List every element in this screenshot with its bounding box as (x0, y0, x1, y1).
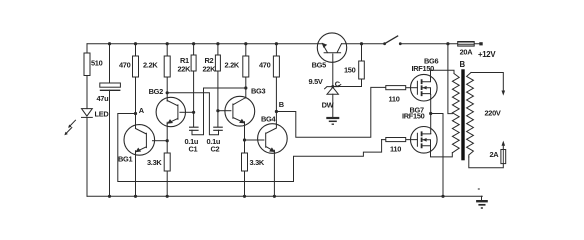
wire 470 no.1 column / node A / BG1 collector (135, 44, 137, 129)
wire upper 110 to BG6 gate (406, 87, 418, 89)
wire secondary top to output (471, 73, 503, 92)
wire bottom ground rail (87, 195, 482, 197)
fuse 2A (501, 150, 506, 164)
wire BG6 drain to primary top (431, 70, 455, 81)
MOSFET BG7 (411, 127, 438, 154)
svg-text:20A: 20A (460, 47, 474, 56)
svg-text:IRF150: IRF150 (402, 112, 425, 121)
wire left column 510/LED branch (86, 44, 88, 197)
wire lower 110 to BG7 gate (382, 139, 418, 141)
svg-text:+12V: +12V (478, 50, 496, 59)
svg-text:B: B (460, 60, 466, 69)
transistor BG5 (317, 33, 346, 62)
switch contact dots (383, 42, 386, 45)
svg-text:C1: C1 (189, 144, 198, 153)
junction dots bottom rail (108, 195, 445, 198)
ground (battery minus) (476, 200, 488, 202)
svg-text:47u: 47u (97, 94, 110, 103)
junction dots top rail (108, 42, 450, 45)
svg-text:22K: 22K (178, 65, 192, 74)
wire 150 resistor top to rail (361, 44, 363, 61)
capacitor 47u electrolytic (100, 83, 121, 87)
svg-text:BG2: BG2 (149, 87, 163, 96)
transformer primary winding (452, 74, 459, 153)
wire ground stub at rail end (481, 196, 483, 200)
capacitor C2 0.1u (213, 127, 223, 130)
svg-text:BG4: BG4 (261, 114, 276, 123)
wire 2.2K no.1 column / BG2 collector-emitter (166, 44, 168, 197)
svg-text:22K: 22K (203, 65, 217, 74)
wire +12V drop to transformer center tap (448, 44, 453, 114)
svg-text:220V: 220V (485, 109, 501, 118)
svg-text:R1: R1 (180, 56, 189, 65)
resistor R1 22K (191, 55, 196, 71)
resistor 2.2K no.1 (164, 56, 170, 77)
switch lever (385, 36, 398, 44)
wire 470 no.2 column / node B / BG4 collector (275, 44, 277, 127)
wire BG3 base lead (218, 110, 231, 112)
ground (zener) (326, 117, 339, 119)
svg-text:BG5: BG5 (312, 60, 326, 69)
wire node B to BG6 gate feed (276, 87, 385, 137)
svg-text:510: 510 (91, 58, 103, 67)
svg-text:DW: DW (322, 101, 334, 110)
+12V terminal (479, 42, 482, 45)
svg-text:110: 110 (389, 95, 400, 104)
wire mid node to bottom rail (431, 114, 443, 197)
zener diode DW (327, 87, 338, 94)
capacitor C1 0.1u (189, 127, 199, 130)
resistor 470 no.1 (133, 56, 139, 77)
wire top supply rail (87, 43, 480, 45)
wire node C to 150 resistor bottom (333, 79, 362, 87)
svg-text:150: 150 (344, 66, 356, 75)
node C dot (331, 85, 334, 88)
LED diode (82, 109, 93, 117)
wire C2 bottom riser to BG2 collector (167, 93, 218, 135)
svg-text:3.3K: 3.3K (147, 158, 162, 167)
transistor BG2 (156, 97, 185, 126)
wire R1 column / BG2 base / C1 top (193, 44, 195, 127)
resistor 110 lower (386, 138, 406, 142)
svg-text:R2: R2 (205, 56, 214, 65)
resistor 3.3K no.1 (164, 153, 170, 171)
fuse 20A (458, 42, 475, 47)
transformer core (461, 69, 464, 160)
transistor BG3 (225, 96, 255, 126)
wire BG1 base to BG2 emitter node (153, 140, 168, 142)
junction dots misc (166, 86, 433, 142)
wire BG4 emitter to bottom rail (273, 151, 275, 196)
wire R2 column / BG3 base / C2 top (217, 44, 219, 127)
svg-text:BG1: BG1 (118, 154, 132, 163)
resistor 150 (359, 61, 365, 79)
wire output lower stub through 2A fuse (469, 145, 504, 168)
wire BG5 base to node C (332, 54, 334, 87)
svg-text:470: 470 (119, 61, 131, 70)
svg-text:110: 110 (390, 145, 401, 154)
wire BG6 source / BG7 drain column (430, 95, 432, 134)
svg-text:BG3: BG3 (251, 87, 265, 96)
svg-text:LED: LED (95, 110, 110, 119)
arrowhead up on output lower stub (502, 141, 506, 146)
svg-text:C2: C2 (211, 144, 220, 153)
svg-text:2.2K: 2.2K (143, 61, 158, 70)
resistor 510 (84, 53, 90, 76)
wire BG7 source to primary bottom (431, 147, 453, 157)
wire node A to BG7 gate feed (long bottom route) (118, 114, 382, 182)
wire BG2 base lead (180, 111, 194, 113)
node B dot (275, 110, 278, 113)
svg-text:B: B (279, 100, 284, 109)
resistor 110 upper (386, 86, 406, 90)
wire BG4 base to BG3 emitter node (245, 139, 264, 141)
svg-text:470: 470 (259, 61, 271, 70)
svg-text:2A: 2A (490, 150, 500, 159)
resistor 2.2K no.2 (243, 56, 249, 77)
svg-text:9.5V: 9.5V (309, 77, 323, 86)
svg-text:IRF150: IRF150 (412, 64, 435, 73)
transistor BG1 (124, 125, 155, 156)
svg-text:3.3K: 3.3K (250, 158, 265, 167)
svg-text:2.2K: 2.2K (225, 61, 240, 70)
wire zener DW to ground (332, 94, 334, 117)
wire 47u capacitor branch (109, 44, 111, 197)
arrowhead down on output upper stub (502, 91, 506, 96)
wire C1 bottom riser to BG3 collector (192, 88, 246, 135)
MOSFET BG6 (411, 74, 438, 101)
node A dot (134, 112, 137, 115)
resistor 470 no.2 (273, 56, 279, 77)
wire 2.2K no.2 column / BG3 collector-emitter (245, 44, 246, 197)
resistor 3.3K no.2 (242, 153, 248, 171)
resistor R2 22K (215, 55, 220, 71)
transistor BG4 (258, 124, 288, 154)
transformer secondary winding (467, 73, 474, 158)
